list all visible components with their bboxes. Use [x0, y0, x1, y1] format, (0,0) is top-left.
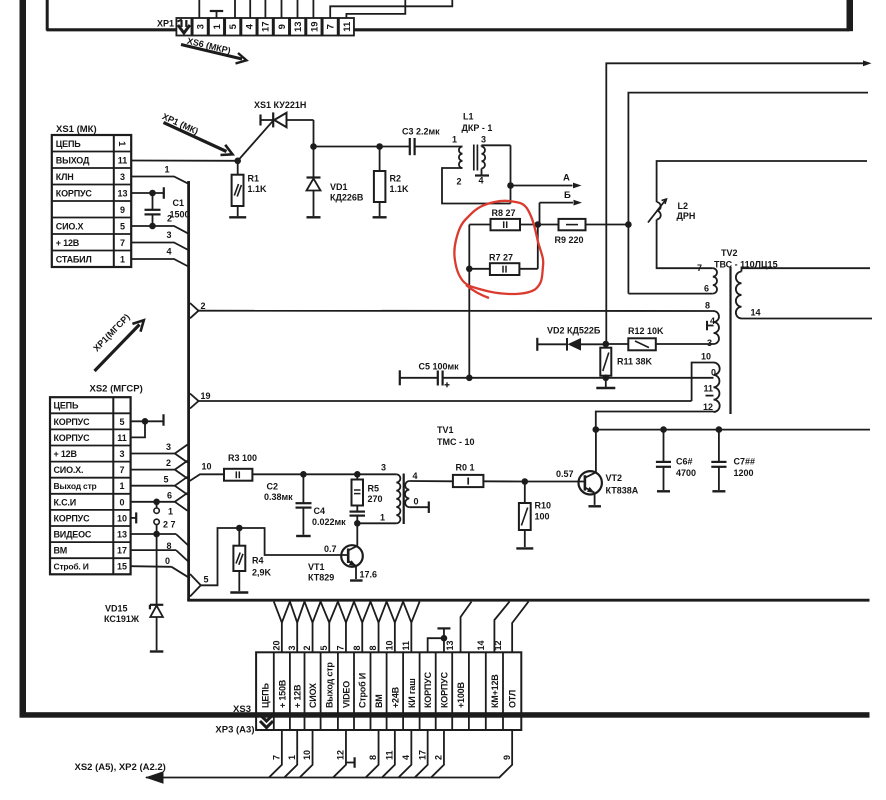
svg-text:13: 13 [117, 188, 127, 198]
annotation red circle around R7 R8 [454, 201, 543, 294]
wire to VD15 [156, 534, 158, 605]
node R10 junction [522, 478, 529, 485]
upper module bottom edge right segment [354, 28, 849, 31]
wire R7/R8 left vertical [468, 225, 470, 378]
svg-text:7: 7 [271, 755, 281, 760]
wire R0 node to VT2 base [525, 481, 585, 483]
wire XS1 КЛН pin 3 (wire 1) [132, 177, 189, 184]
svg-text:5: 5 [119, 417, 124, 427]
node R2 junction [376, 143, 383, 150]
capacitor C7 [718, 430, 720, 462]
svg-text:3: 3 [196, 24, 207, 29]
inductor L1 primary winding [459, 147, 463, 169]
svg-text:19: 19 [309, 21, 320, 32]
svg-text:VT2: VT2 [606, 473, 623, 483]
transistor VT2 КТ838А [579, 471, 602, 494]
resistor R5 [356, 474, 358, 479]
svg-text:14: 14 [476, 640, 486, 650]
svg-text:R0 1: R0 1 [456, 463, 475, 473]
wire node to R2/C3 [314, 146, 410, 148]
wire node5 to R4/VT1 base [201, 528, 348, 585]
wire XP1 pin 3 up [198, 0, 200, 19]
svg-text:4: 4 [479, 176, 484, 186]
wire TV2 pin3 to R12 [656, 343, 714, 345]
svg-text:КОРПУС: КОРПУС [56, 188, 93, 198]
middle module bottom edge [187, 599, 869, 602]
capacitor C1 [152, 193, 154, 210]
svg-text:11: 11 [401, 641, 411, 651]
svg-text:0: 0 [711, 368, 716, 378]
middle module left edge [187, 181, 190, 601]
svg-text:12: 12 [336, 750, 346, 760]
svg-text:R11 38K: R11 38K [617, 357, 653, 367]
svg-text:Строб. И: Строб. И [54, 562, 89, 572]
svg-text:15: 15 [117, 562, 127, 572]
svg-text:1.1K: 1.1K [390, 184, 410, 194]
svg-text:C2: C2 [267, 482, 279, 492]
wires XS3 bottom to cable [269, 730, 282, 777]
svg-text:11: 11 [118, 155, 128, 165]
svg-text:+ 12В: + 12В [56, 238, 80, 248]
svg-text:C6#: C6# [676, 457, 693, 467]
svg-text:Выход стр: Выход стр [325, 662, 335, 708]
svg-text:TV2: TV2 [721, 248, 738, 258]
svg-text:3: 3 [166, 442, 171, 452]
node rail-C6 [660, 426, 667, 433]
svg-text:2,9K: 2,9K [252, 568, 272, 578]
wire bottom cable rail [146, 777, 500, 779]
svg-text:3: 3 [381, 463, 386, 473]
svg-text:11: 11 [342, 21, 353, 32]
svg-text:ТМС - 10: ТМС - 10 [437, 437, 475, 447]
node rail-VT2 [593, 426, 600, 433]
svg-text:+24В: +24В [390, 686, 400, 708]
wire node 19 line [199, 400, 692, 402]
capacitor C4 [356, 506, 358, 512]
svg-text:9: 9 [120, 205, 125, 215]
inductor L2 ДРН [657, 202, 661, 220]
svg-text:+ 12В: + 12В [293, 684, 303, 708]
svg-text:L1: L1 [463, 112, 474, 122]
wire XS2 КОРПУС pin5 [131, 420, 164, 422]
node R9 right junction [625, 221, 632, 228]
wire XS1 КОРПУС pin 13 [132, 192, 164, 194]
svg-text:1: 1 [165, 165, 170, 175]
svg-text:8: 8 [352, 645, 362, 650]
svg-text:СИО.Х.: СИО.Х. [54, 465, 84, 475]
node C5-R7R8 junction [466, 375, 473, 382]
svg-text:9: 9 [502, 755, 512, 760]
svg-text:1500: 1500 [170, 210, 190, 220]
svg-text:4: 4 [413, 471, 418, 481]
svg-text:10: 10 [701, 352, 711, 362]
svg-text:7: 7 [326, 24, 337, 29]
terminal L1 pin4 [481, 169, 483, 175]
svg-text:КЛН: КЛН [56, 172, 74, 182]
svg-text:ДКР - 1: ДКР - 1 [462, 123, 493, 133]
svg-text:VD2 КД522Б: VD2 КД522Б [547, 326, 601, 336]
terminal TV1 pin0 [409, 506, 429, 508]
wire bus line 2 lower [627, 225, 629, 294]
node R7 left junction [466, 266, 473, 273]
wire XS2 КОРПУС pin11 [131, 421, 145, 437]
wire XS2 КОРПУС pin10 stub [131, 517, 137, 519]
svg-text:+ 150В: + 150В [277, 679, 287, 708]
svg-text:8: 8 [166, 541, 171, 551]
connector XP1 cell row [176, 18, 191, 36]
svg-text:11: 11 [384, 750, 394, 760]
connector arrow ХР1(МГСР) [95, 325, 140, 372]
wires XS3 top to module (forked) [281, 623, 283, 653]
wire XS3 КОРПУС pair to chassis [428, 638, 444, 652]
svg-text:17.6: 17.6 [360, 570, 378, 580]
contact jumper circles [156, 502, 158, 508]
svg-text:6: 6 [704, 284, 709, 294]
wire XS2 ВМ (8) [131, 549, 176, 551]
wire XS2 СИО.Х. (2) [131, 469, 175, 471]
wire bus line 2 [628, 93, 868, 225]
svg-text:3: 3 [167, 230, 172, 240]
svg-text:XS2 (А5), ХР2 (А2.2): XS2 (А5), ХР2 (А2.2) [75, 762, 166, 773]
svg-text:0.57: 0.57 [556, 469, 574, 479]
svg-text:L2: L2 [678, 201, 689, 211]
wire XS2 +12В (3) [131, 453, 175, 455]
svg-text:СИО.Х: СИО.Х [56, 221, 84, 231]
inductor L1 secondary winding [482, 147, 486, 169]
svg-text:R1: R1 [248, 174, 260, 184]
svg-text:4: 4 [244, 23, 255, 29]
svg-text:10: 10 [302, 750, 312, 760]
node XS1-R1 junction [234, 158, 241, 165]
svg-text:0.7: 0.7 [324, 544, 337, 554]
svg-text:1: 1 [380, 513, 385, 523]
resistor R10 [524, 482, 526, 504]
node A junction [507, 182, 514, 189]
svg-text:КИ гаш: КИ гаш [407, 678, 417, 708]
svg-text:0.38мк: 0.38мк [264, 492, 293, 502]
svg-text:17: 17 [117, 546, 127, 556]
svg-text:8: 8 [705, 301, 710, 311]
svg-text:C4: C4 [314, 506, 326, 516]
svg-text:13: 13 [445, 640, 455, 650]
svg-text:5: 5 [204, 575, 209, 585]
svg-text:19: 19 [201, 391, 211, 401]
svg-text:10: 10 [202, 462, 212, 472]
svg-text:R5: R5 [368, 484, 380, 494]
svg-text:ВМ: ВМ [54, 546, 68, 556]
wire XS3 КМ+12В top [494, 602, 509, 653]
svg-text:КОРПУС: КОРПУС [54, 417, 91, 427]
terminal on VIDEO bottom wire [346, 762, 355, 764]
svg-text:R8 27: R8 27 [492, 208, 516, 218]
stub TV2 pin11 [706, 395, 714, 397]
svg-text:VD1: VD1 [330, 182, 348, 192]
svg-text:3: 3 [287, 645, 297, 650]
svg-text:6: 6 [167, 491, 172, 501]
svg-text:5: 5 [228, 23, 239, 29]
svg-text:17: 17 [417, 750, 427, 760]
svg-text:4700: 4700 [676, 468, 696, 478]
node C4-TV1-VT1 junction [354, 520, 361, 527]
terminal chassis XS2 [162, 414, 164, 426]
svg-text:1: 1 [168, 507, 173, 517]
wire XP1 pin 19 up [312, 0, 314, 19]
wire XP1 pin 4 up [249, 0, 251, 19]
wire TV2 pin6 [628, 293, 712, 295]
wire TV1 pin1 [357, 522, 396, 524]
svg-text:0.022мк: 0.022мк [312, 517, 346, 527]
wire node 10 from edge [189, 474, 224, 481]
svg-text:270: 270 [368, 494, 383, 504]
svg-text:КТ829: КТ829 [308, 573, 334, 583]
svg-text:2: 2 [457, 177, 462, 187]
svg-text:1: 1 [287, 755, 297, 760]
wire bus line 1 with arrow [606, 63, 864, 344]
svg-text:ХР3 (А3): ХР3 (А3) [215, 725, 254, 736]
svg-text:R12 10K: R12 10K [628, 326, 664, 336]
wire TV1 pin4 to R0 [409, 480, 453, 482]
svg-text:10: 10 [117, 513, 127, 523]
svg-text:1: 1 [212, 23, 223, 29]
svg-text:А: А [563, 173, 570, 184]
connector XP1 plug arrow glyph [180, 20, 182, 27]
wire VT2 collector rail [596, 429, 870, 431]
resistor R2 [379, 147, 381, 172]
svg-text:КОРПУС: КОРПУС [54, 433, 91, 443]
connector arrow XP1 (MK) [164, 123, 227, 152]
wire XS2 К.С.И (6) [131, 501, 175, 503]
svg-text:VT1: VT1 [308, 562, 325, 572]
svg-text:КД226В: КД226В [330, 193, 364, 203]
notch node 2 [190, 303, 199, 318]
wire TV2 pin8 long [199, 310, 714, 312]
wire L1 pin2 loop [442, 168, 511, 204]
svg-text:ЦЕПЬ: ЦЕПЬ [56, 139, 81, 149]
resistor R11 [605, 344, 607, 348]
capacitor C6 [663, 430, 665, 462]
resistor R1 [237, 161, 239, 175]
wire XP1 pin 11 route [346, 0, 405, 19]
node C2 junction [300, 471, 307, 478]
wire to R5 node [303, 473, 357, 475]
svg-text:0: 0 [414, 497, 419, 507]
notch node 19 [190, 394, 199, 409]
node rail-C7 [716, 426, 723, 433]
transformer TV1 primary [396, 474, 400, 523]
connector table XS2 grid [50, 397, 131, 574]
wire XS2 Строб.И (0) [131, 565, 172, 568]
svg-text:2: 2 [167, 214, 172, 224]
svg-text:4: 4 [401, 755, 411, 760]
connector XS3 plug arrow glyph [260, 715, 273, 721]
svg-text:7: 7 [336, 645, 346, 650]
svg-text:ОТЛ: ОТЛ [508, 690, 518, 708]
svg-text:1: 1 [116, 141, 127, 147]
wire XP1 pin 9 up [281, 0, 283, 19]
svg-text:2 7: 2 7 [163, 520, 176, 530]
svg-text:КТ838А: КТ838А [606, 486, 639, 496]
wire/arrow node A [511, 185, 573, 187]
outer module border bottom (bold) [20, 712, 870, 718]
wire bus line 3 upper [657, 220, 713, 269]
wire XS1 СИО.Х pin 5 (wire 2) [132, 226, 189, 234]
node R8-R9-Б junction [535, 221, 542, 228]
svg-text:XS1 (МК): XS1 (МК) [56, 124, 97, 135]
svg-text:0: 0 [165, 556, 170, 566]
svg-text:3: 3 [707, 338, 712, 348]
svg-text:КС191Ж: КС191Ж [104, 614, 140, 624]
svg-text:Б: Б [564, 190, 571, 201]
svg-text:13: 13 [293, 21, 304, 32]
svg-text:3: 3 [120, 172, 125, 182]
ground R11 [605, 378, 607, 387]
node VD2-R11-R12 junction [603, 341, 610, 348]
connector table XS1 grid [52, 135, 131, 267]
svg-text:XS3: XS3 [233, 704, 251, 715]
svg-text:ЦЕПЬ: ЦЕПЬ [54, 401, 79, 411]
svg-text:К.С.И: К.С.И [54, 497, 76, 507]
wire TV2 pin14 [742, 318, 873, 320]
svg-text:ВИДЕОС: ВИДЕОС [54, 530, 92, 540]
wire TV2 pin10 [692, 363, 714, 402]
svg-text:13: 13 [117, 530, 127, 540]
svg-text:7: 7 [119, 465, 124, 475]
svg-text:C7##: C7## [734, 457, 756, 467]
svg-text:R9 220: R9 220 [555, 235, 584, 245]
svg-text:8: 8 [368, 755, 378, 760]
svg-text:ВЫХОД: ВЫХОД [56, 155, 90, 165]
svg-text:ВМ: ВМ [374, 694, 384, 708]
svg-text:VD15: VD15 [105, 604, 128, 614]
svg-text:R10: R10 [535, 501, 552, 511]
svg-text:R2: R2 [390, 174, 402, 184]
wire L1 pin3 to node [481, 145, 483, 146]
outer module border left (bold) [20, 0, 27, 718]
connector table XS3 grid [256, 652, 521, 730]
svg-text:11: 11 [117, 433, 127, 443]
svg-text:R3 100: R3 100 [228, 453, 257, 463]
svg-text:XS2 (МГСР): XS2 (МГСР) [90, 384, 143, 395]
terminal above XP1 pin 1 [216, 12, 218, 19]
svg-text:C5 100мк: C5 100мк [419, 362, 460, 372]
diode XS1 КУ221Н [259, 115, 261, 126]
svg-text:9: 9 [277, 24, 288, 29]
transformer TV2 secondary winding [736, 272, 742, 319]
svg-text:3: 3 [481, 135, 486, 145]
svg-text:VIDEO: VIDEO [341, 681, 351, 708]
wire XS3 +100В top (13) [461, 602, 472, 653]
svg-text:ЦЕПЬ: ЦЕПЬ [260, 683, 270, 708]
resistor R4 [236, 525, 243, 532]
svg-text:ДРН: ДРН [677, 211, 696, 221]
arrow to XS2(A5) [145, 771, 164, 783]
svg-text:СТАБИЛ: СТАБИЛ [56, 254, 92, 264]
wire XP1 pin 7 route [330, 0, 452, 19]
wire TV2 pin0 [606, 377, 714, 379]
svg-text:3: 3 [119, 449, 124, 459]
svg-text:C3 2.2мк: C3 2.2мк [402, 127, 440, 137]
wire XP1 pin 17 up [264, 0, 266, 19]
svg-text:Строб И: Строб И [358, 673, 368, 708]
svg-text:+ 12В: + 12В [54, 449, 78, 459]
transformer TV1 secondary [405, 481, 409, 507]
wire XS3 ОТЛ top [512, 602, 528, 653]
svg-text:4: 4 [167, 247, 172, 257]
svg-text:20: 20 [271, 640, 281, 650]
upper module right corner (bold) [847, 0, 854, 31]
svg-text:TV1: TV1 [437, 425, 454, 435]
resistor R9 [538, 224, 559, 226]
svg-text:СИОХ: СИОХ [308, 683, 318, 708]
wire diagonal to XS1 diode [238, 121, 273, 161]
svg-text:КОРПУС: КОРПУС [423, 671, 433, 708]
svg-text:8: 8 [368, 645, 378, 650]
connector arrow XS6 (MKR) [181, 45, 242, 60]
svg-text:+100В: +100В [456, 682, 466, 708]
svg-text:5: 5 [163, 475, 168, 485]
wire XS1 +12В pin 7 (wire 3) [132, 243, 189, 251]
svg-text:0: 0 [119, 497, 124, 507]
svg-text:Выход стр: Выход стр [54, 481, 97, 491]
svg-text:2: 2 [302, 645, 312, 650]
svg-text:11: 11 [703, 384, 713, 394]
svg-text:7: 7 [120, 238, 125, 248]
upper module left corner [46, 0, 49, 31]
wire bus line 3 top [657, 161, 867, 202]
svg-text:1: 1 [119, 481, 124, 491]
svg-text:10: 10 [384, 640, 394, 650]
transistor VT1 КТ829 [341, 545, 363, 567]
transformer TV2 core [729, 267, 731, 414]
node R11 bottom junction [603, 375, 610, 382]
svg-text:1: 1 [452, 135, 457, 145]
transformer TV1 core [403, 474, 405, 525]
wire XS1 ВЫХОД pin 11 [132, 160, 238, 162]
svg-text:C1: C1 [173, 198, 185, 208]
node VD1 junction [310, 143, 317, 150]
inductor L1 core [473, 145, 475, 171]
svg-text:17: 17 [261, 21, 272, 32]
svg-text:4: 4 [710, 316, 715, 326]
svg-text:2: 2 [434, 755, 444, 760]
upper module bottom edge left segment [47, 28, 177, 31]
svg-text:5: 5 [319, 645, 329, 650]
wire XP1 pin 5 up [234, 0, 236, 19]
svg-text:5: 5 [120, 221, 125, 231]
svg-text:2: 2 [166, 458, 171, 468]
node ВИДЕОС junction [153, 531, 160, 538]
svg-text:КМ+12В: КМ+12В [490, 674, 500, 708]
wire XS1 СТАБИЛ pin 1 (wire 4) [132, 259, 189, 267]
svg-text:XS1 КУ221Н: XS1 КУ221Н [254, 100, 306, 110]
wire/arrow node Б [540, 202, 574, 204]
node К.С.И junction [153, 499, 160, 506]
svg-text:2: 2 [201, 301, 206, 311]
node R5 junction [354, 471, 361, 478]
svg-text:XP1: XP1 [157, 19, 174, 29]
svg-text:1.1K: 1.1K [248, 184, 268, 194]
svg-text:100: 100 [535, 512, 550, 522]
svg-text:14: 14 [751, 308, 761, 318]
svg-text:7: 7 [697, 263, 702, 273]
notch node 5 [190, 574, 201, 597]
wire XS2 ВИДЕОС (2 7) [131, 533, 176, 535]
wire R5 node to TV1 pin3 [357, 473, 396, 475]
svg-text:КОРПУС: КОРПУС [439, 671, 449, 708]
svg-text:R4: R4 [252, 556, 264, 566]
wire TV2 pin12 [596, 412, 714, 430]
wire TV2 secondary top [742, 268, 871, 271]
